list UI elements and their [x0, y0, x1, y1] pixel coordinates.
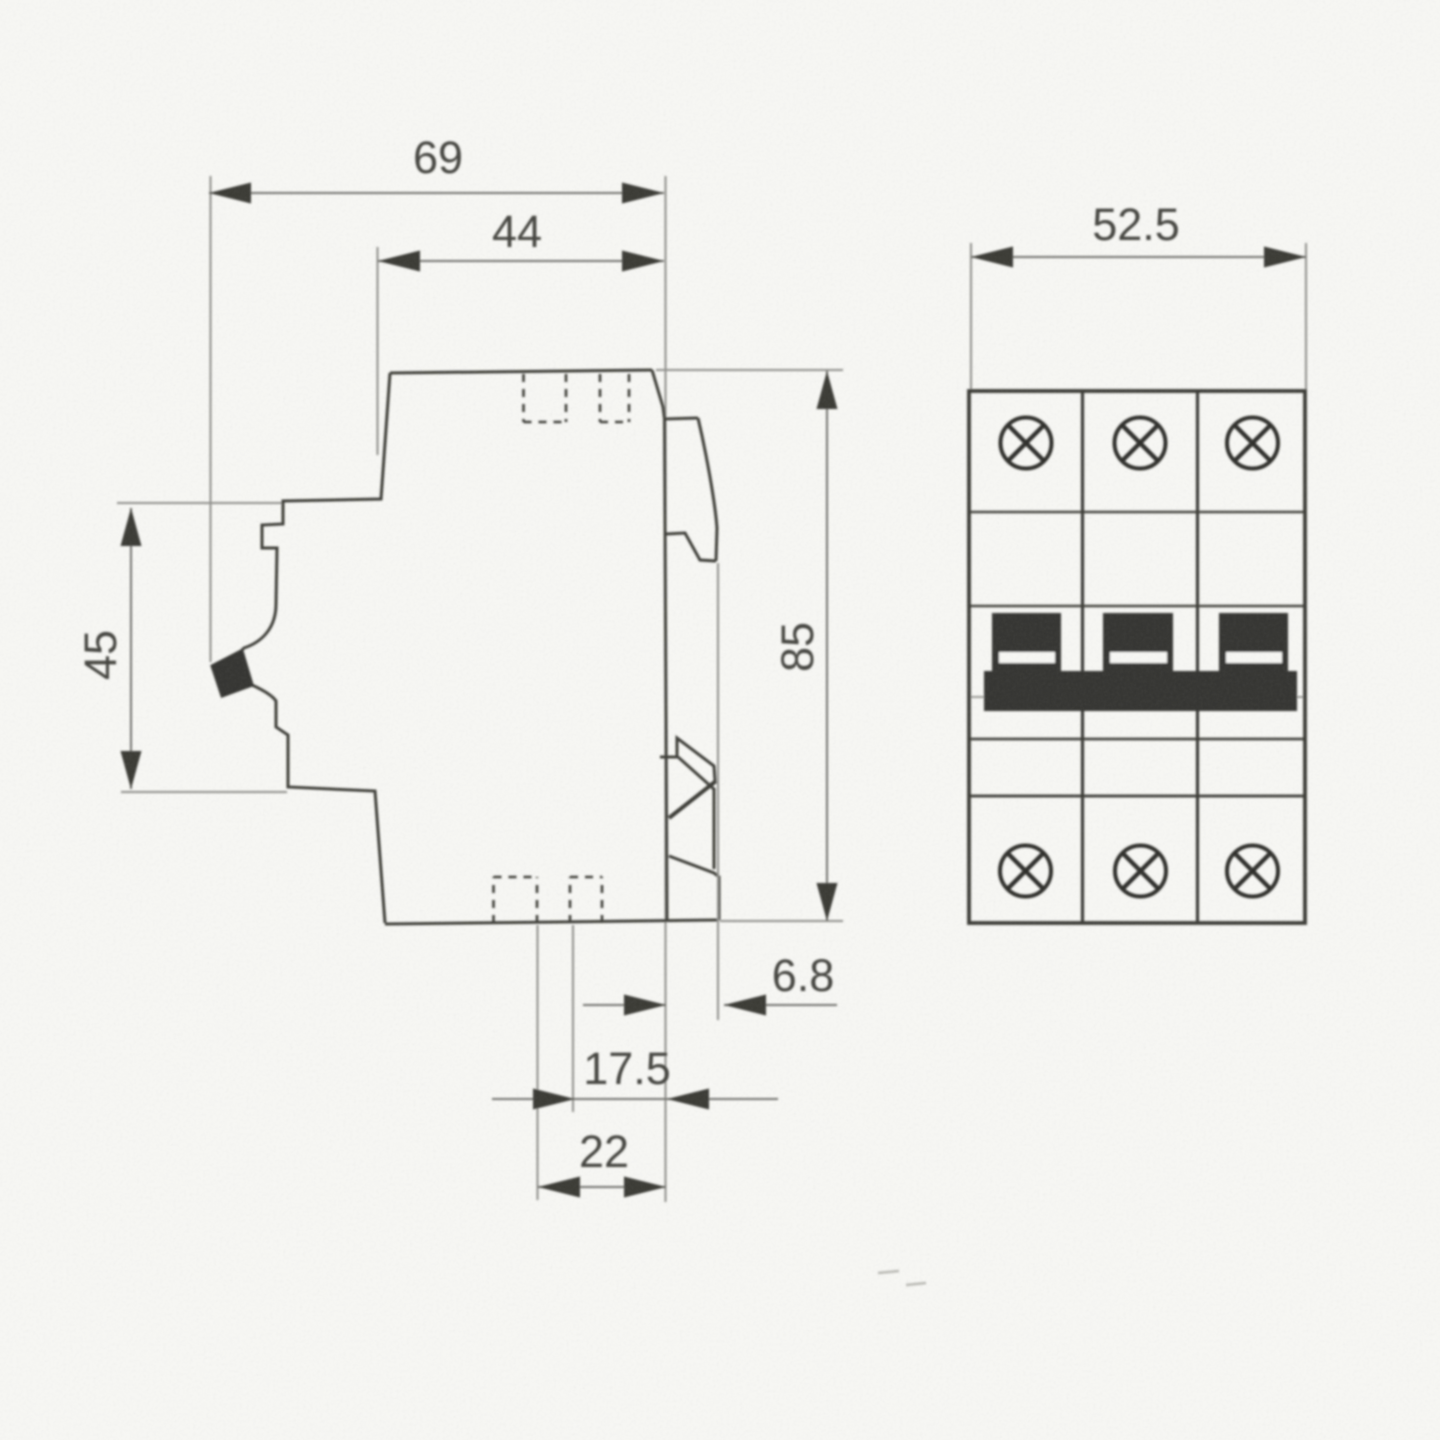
long right extension line (69/44/17.5/22 right boundary)	[665, 176, 667, 1202]
side body: left profile with tab, latch curve and lower steps	[212, 373, 390, 923]
dimension line 44	[378, 260, 664, 262]
common trip bar (filled)	[984, 671, 1297, 711]
DIN clip outer edge	[713, 789, 716, 869]
bottom hidden terminal box 2 (dashed)	[570, 877, 602, 923]
arrowheads 52.5	[971, 247, 1306, 268]
toggle slot pole 3	[1226, 652, 1282, 663]
front view: horizontal separator 1	[970, 511, 1305, 514]
arrowheads 85	[817, 371, 838, 921]
toggle slot pole 2	[1110, 652, 1167, 663]
screw bottom 3	[1227, 846, 1278, 897]
top hidden terminal box 2 (dashed)	[600, 374, 629, 422]
bottom hidden terminal box 1 (dashed)	[494, 877, 538, 923]
toggle slot pole 1	[999, 652, 1055, 663]
side body: top-right slant and step	[652, 370, 698, 419]
extension line 45 bottom	[121, 791, 287, 793]
front view: outer case	[969, 391, 1305, 923]
side body: rail notch	[666, 533, 716, 561]
front view: pole divider 1	[1081, 391, 1084, 923]
side body: rear bulge outer edge	[698, 418, 717, 561]
extension line 85 top	[656, 369, 843, 371]
DIN clip lower slider	[669, 856, 719, 920]
extension line 6.8 right	[717, 563, 719, 1020]
front view: pole divider 2	[1196, 391, 1199, 923]
toggle tip (filled)	[211, 649, 254, 697]
arrowheads 6.8 (outside pointing in)	[624, 995, 766, 1016]
extension line 85 bottom	[720, 920, 843, 922]
dimension 6.8	[583, 1004, 837, 1006]
dimension 22	[538, 1186, 666, 1188]
screw bottom 2	[1115, 846, 1166, 897]
side body: clip tick	[660, 756, 677, 759]
extension line for 69 (left, at toggle tip)	[210, 176, 212, 662]
extension line 45 top	[117, 502, 283, 504]
arrowheads 22	[538, 1177, 666, 1198]
arrowheads 17.5 (outside pointing in)	[533, 1089, 709, 1110]
dimension line 45	[130, 508, 132, 789]
dimension 17.5	[492, 1098, 778, 1100]
screw top 1	[1001, 418, 1052, 469]
arrowheads 69	[209, 183, 664, 204]
side body: bottom edge	[385, 920, 719, 924]
toggle pole 1 (filled)	[992, 613, 1061, 672]
extension line 22 left	[537, 925, 539, 1200]
DIN clip fixed jaw	[677, 738, 715, 790]
arrowheads 44	[378, 251, 664, 272]
arrowheads 45	[121, 508, 142, 789]
faint stray scan marks	[878, 1271, 926, 1285]
extension line for 44 (left)	[377, 247, 379, 455]
extension line 17.5 left	[572, 925, 574, 1112]
front view: internal horizontal line under bar (light)	[970, 696, 1305, 698]
top hidden terminal box 1 (dashed)	[524, 374, 567, 422]
front view: horizontal separator 4	[970, 795, 1305, 798]
side body: back edge	[665, 420, 668, 920]
dimension line 69	[209, 192, 664, 194]
dimension 52.5	[971, 256, 1306, 258]
toggle pole 3 (filled)	[1219, 613, 1288, 672]
screw bottom 1	[1000, 846, 1051, 897]
dimension line 85	[826, 371, 828, 921]
front view: horizontal separator 3	[970, 738, 1305, 741]
side body: top face	[390, 370, 652, 373]
extension lines 52.5	[971, 243, 1306, 390]
screw top 3	[1227, 418, 1278, 469]
toggle pole 2 (filled)	[1103, 613, 1173, 672]
DIN clip top diagonal	[669, 781, 716, 818]
screw top 2	[1115, 418, 1166, 469]
front view: horizontal separator 2	[970, 605, 1305, 608]
